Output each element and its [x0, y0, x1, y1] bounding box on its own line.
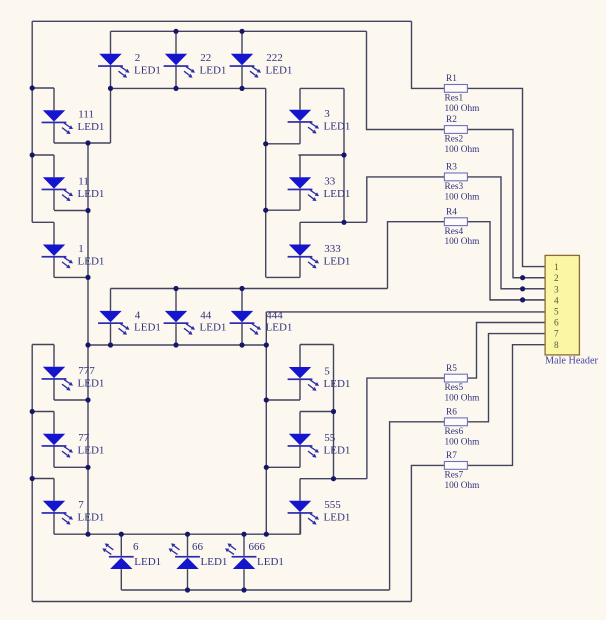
wire R3 lead link — [367, 177, 445, 222]
wire LED3 anode link — [300, 87, 344, 89]
svg-text:444: 444 — [266, 309, 283, 321]
wire segment G LED stubs x=110.5 — [110, 289, 112, 311]
wire R4 right lead to pin4 — [467, 222, 545, 300]
junction left bus / LED7 branch — [30, 476, 35, 481]
svg-text:Res5: Res5 — [445, 383, 464, 393]
wire segment D anode bus y=590 — [121, 589, 389, 591]
svg-text:R4: R4 — [446, 207, 457, 217]
wire segment G LED stubs x=176 — [175, 289, 177, 311]
wire segment A top bus (LED anodes, net R2) — [111, 30, 367, 32]
svg-text:55: 55 — [324, 432, 336, 444]
wire branch LED7 anode — [32, 478, 54, 480]
svg-text:LED1: LED1 — [134, 65, 161, 77]
junction inner bus / LED77 cathode — [85, 465, 90, 470]
junction inner bus / segG bottom bus — [85, 342, 90, 347]
wire LED33 anode jog — [299, 154, 345, 156]
wire LED5 cathode jog — [266, 399, 300, 401]
wire segment G LED cathode stub x=176 — [175, 322, 177, 345]
svg-text:4: 4 — [554, 296, 559, 306]
svg-text:R5: R5 — [446, 364, 457, 374]
junction segC anode bus / LED55 — [331, 409, 336, 414]
wire R2 riser from segment A bus — [367, 31, 445, 129]
junction right common bus / LED3 cathode — [263, 141, 268, 146]
junction segG top bus / LED44 — [173, 286, 178, 291]
junction inner bus / segD cathode bus — [85, 532, 90, 537]
svg-text:LED1: LED1 — [78, 378, 105, 390]
wire LED22 cathode stub — [175, 65, 177, 88]
junction segD anode bus / LED66 — [185, 587, 190, 592]
connector JP1 Male Header — [545, 255, 598, 366]
LED 44 (LED1) — [164, 309, 227, 335]
LED 33 (LED1) — [288, 176, 351, 202]
svg-text:R3: R3 — [446, 163, 457, 173]
svg-text:7: 7 — [554, 330, 559, 340]
wire LED2 anode stub — [110, 31, 112, 54]
wire R4 left lead descender — [388, 222, 445, 289]
junction segD cathode bus / LED666 — [241, 532, 246, 537]
wire header pin3 stub — [501, 288, 545, 290]
resistor R1 — [444, 74, 480, 114]
junction header pin4 wire — [520, 297, 525, 302]
wire left outer bus upper (segment F anode bus) — [31, 21, 33, 222]
svg-text:222: 222 — [266, 52, 283, 64]
wire R6 right lead to pin7 — [468, 334, 545, 422]
wire LED333 anode jog — [300, 221, 367, 223]
wire LED333 cathode jog — [266, 276, 300, 278]
junction segG bottom / LED4 — [108, 342, 113, 347]
wire R6 left lead descender — [390, 422, 445, 590]
wire LED555 anode stub — [299, 479, 301, 501]
wire segment F LED anode stub y=88 — [53, 88, 55, 110]
wire LED1 cathode jog — [54, 276, 88, 278]
wire segment C anode bus — [333, 345, 335, 479]
wire LED22 anode stub — [175, 31, 177, 54]
svg-text:3: 3 — [554, 285, 559, 295]
svg-text:Res7: Res7 — [445, 471, 464, 481]
resistor R7 — [444, 451, 480, 491]
wire segment A bottom bus (cathodes common) — [111, 87, 266, 89]
junction segB anode bus / LED333 and R3 — [341, 220, 346, 225]
LED 22 (LED1) — [164, 52, 227, 77]
svg-text:LED1: LED1 — [266, 322, 293, 334]
junction inner bus / LED1 cathode — [85, 275, 90, 280]
LED 3 (LED1) — [288, 108, 351, 134]
wire LED55 cathode stub — [299, 445, 301, 467]
junction header pin2 wire — [520, 275, 525, 280]
svg-text:33: 33 — [324, 176, 336, 188]
junction right common bus / LED33 cathode — [263, 208, 268, 213]
svg-text:LED1: LED1 — [324, 255, 351, 267]
svg-text:LED1: LED1 — [257, 556, 284, 568]
svg-text:1: 1 — [554, 263, 559, 273]
junction segA bottom / LED222 — [239, 86, 244, 91]
LED 444 (LED1) — [230, 309, 293, 335]
wire R3 right lead to pin3 — [467, 177, 545, 289]
svg-text:100 Ohm: 100 Ohm — [445, 394, 481, 404]
LED 11 (LED1) — [42, 176, 105, 202]
svg-text:100 Ohm: 100 Ohm — [445, 192, 481, 202]
svg-text:8: 8 — [554, 341, 559, 351]
svg-text:LED1: LED1 — [78, 255, 105, 267]
junction segA bus / LED22 — [173, 29, 178, 34]
svg-text:LED1: LED1 — [134, 322, 161, 334]
wire segment B anode bus — [343, 88, 345, 222]
resistor R3 — [444, 163, 480, 203]
wire segment E LED cathode stub y=411.5 — [53, 445, 55, 467]
wire LED777 cathode jog — [54, 399, 88, 401]
wire LED3 cathode jog — [266, 143, 300, 145]
wire LED33 cathode stub — [299, 189, 301, 211]
wire LED55 anode jog — [300, 411, 334, 413]
wire branch LED77 anode — [32, 411, 54, 413]
wire segment G top bus (net R4) — [111, 288, 388, 290]
svg-text:100 Ohm: 100 Ohm — [445, 104, 481, 114]
svg-text:100 Ohm: 100 Ohm — [445, 145, 481, 155]
wire branch LED111 anode — [32, 87, 54, 89]
svg-text:LED1: LED1 — [324, 512, 351, 524]
svg-text:100 Ohm: 100 Ohm — [445, 481, 481, 491]
wire R2 right lead to pin2 — [467, 130, 545, 278]
wire header pin4 stub — [490, 299, 545, 301]
wire R5 left lead link — [367, 378, 444, 479]
wire segment E LED cathode stub y=344.5 — [53, 378, 55, 400]
junction segD cathode bus / LED66 — [185, 532, 190, 537]
wire LED333 anode stub — [299, 222, 301, 244]
wire LED55 cathode jog — [266, 466, 300, 468]
svg-text:2: 2 — [135, 52, 141, 64]
svg-text:LED1: LED1 — [78, 121, 105, 133]
svg-text:66: 66 — [192, 541, 204, 553]
junction inner bus / LED111 cathode — [85, 140, 90, 145]
junction segD cathode bus / LED6 — [119, 532, 124, 537]
svg-text:6: 6 — [554, 319, 559, 329]
wire LED333 cathode stub — [299, 256, 301, 278]
wire segment E LED anode stub y=411.5 — [53, 412, 55, 434]
wire common to header pin5 — [266, 311, 545, 313]
svg-text:LED1: LED1 — [324, 378, 351, 390]
svg-text:44: 44 — [200, 309, 212, 321]
wire segment F LED cathode stub y=88 — [53, 122, 55, 143]
LED 555 (LED1) — [288, 499, 351, 524]
wire segment F LED cathode stub y=222.3 — [53, 256, 55, 277]
wire LED555 anode jog + R5 link — [300, 478, 367, 480]
wire outer-top net R1 (segment F anodes) — [32, 20, 411, 22]
wire segment D LED anode stub x=121.3 — [120, 569, 122, 590]
resistor R6 — [444, 408, 480, 448]
svg-text:5: 5 — [554, 308, 559, 318]
wire LED222 cathode stub — [241, 65, 243, 88]
junction common bus / LED55 cathode — [264, 465, 269, 470]
junction segA bus / LED222 — [239, 29, 244, 34]
wire LED3 cathode stub — [299, 121, 301, 144]
junction segD anode bus / LED666 — [241, 587, 246, 592]
svg-text:4: 4 — [135, 309, 141, 321]
svg-text:666: 666 — [249, 541, 266, 553]
wire segment D LED cathode stub x=187.5 — [187, 534, 189, 556]
junction common bus / segD bus — [264, 532, 269, 537]
resistor R2 — [444, 115, 480, 155]
svg-text:R2: R2 — [446, 115, 457, 125]
svg-text:LED1: LED1 — [78, 188, 105, 200]
LED 55 (LED1) — [288, 432, 351, 458]
svg-text:R7: R7 — [446, 451, 457, 461]
svg-text:333: 333 — [324, 243, 341, 255]
wire segment A to inner bus link — [110, 65, 112, 143]
junction segG bottom / common riser — [264, 342, 269, 347]
wire inner-left common bus — [87, 143, 89, 534]
wire LED77 cathode jog — [54, 466, 88, 468]
LED 111 (LED1) — [42, 109, 105, 135]
wire segment G LED cathode stub x=110.5 — [110, 322, 112, 345]
wire R1 right lead to pin1 — [467, 88, 545, 266]
LED 66 (LED1) — [169, 541, 228, 569]
wire left outer bus lower (segment E anode bus) — [31, 345, 33, 602]
svg-text:LED1: LED1 — [201, 556, 228, 568]
LED 77 (LED1) — [42, 432, 105, 458]
wire LED5 cathode stub — [299, 378, 301, 400]
wire LED55 anode stub — [299, 412, 301, 434]
junction header pin3 wire — [520, 286, 525, 291]
junction inner bus / LED11 cathode — [85, 208, 90, 213]
junction segG bottom / LED444 — [239, 342, 244, 347]
svg-text:LED1: LED1 — [78, 512, 105, 524]
svg-text:LED1: LED1 — [200, 322, 227, 334]
wire header pin2 stub — [513, 277, 545, 279]
wire LED5 anode stub — [299, 345, 301, 368]
svg-text:R6: R6 — [446, 408, 457, 418]
junction segB anode bus / LED33 — [341, 152, 346, 157]
wire R7 left lead descender — [411, 465, 444, 601]
svg-text:555: 555 — [324, 499, 341, 511]
svg-text:11: 11 — [78, 176, 89, 188]
svg-text:LED1: LED1 — [78, 445, 105, 457]
junction inner bus / LED777 cathode — [85, 397, 90, 402]
wire segment D LED anode stub x=244 — [243, 569, 245, 590]
LED 5 (LED1) — [288, 365, 351, 391]
wire segment C top corner — [300, 344, 334, 346]
LED 777 (LED1) — [42, 365, 105, 391]
resistor R5 — [444, 364, 480, 404]
svg-text:Res4: Res4 — [445, 227, 464, 237]
wire LED3 anode stub — [299, 88, 301, 109]
wire LED33 anode stub — [299, 155, 301, 177]
svg-text:LED1: LED1 — [200, 65, 227, 77]
svg-text:77: 77 — [78, 432, 90, 444]
svg-text:777: 777 — [78, 365, 95, 377]
wire segment E LED anode stub y=478.5 — [53, 479, 55, 501]
svg-text:Res3: Res3 — [445, 182, 464, 192]
svg-text:Res6: Res6 — [445, 427, 464, 437]
LED 333 (LED1) — [288, 243, 351, 269]
svg-text:LED1: LED1 — [324, 121, 351, 133]
wire segment D LED cathode stub x=244 — [243, 534, 245, 556]
svg-text:111: 111 — [78, 109, 94, 121]
svg-text:LED1: LED1 — [134, 556, 161, 568]
wire segment D cathode bus y=535 — [54, 533, 301, 535]
LED 7 (LED1) — [42, 499, 105, 524]
LED 6 (LED1) — [102, 541, 161, 569]
junction left bus / LED111 branch — [30, 85, 35, 90]
wire R5 right lead to pin6 — [468, 323, 545, 379]
LED 2 (LED1) — [98, 52, 161, 77]
svg-text:7: 7 — [78, 499, 84, 511]
LED 666 (LED1) — [225, 541, 284, 569]
junction segA bottom / LED2 — [108, 86, 113, 91]
wire segment G LED cathode stub x=242 — [241, 322, 243, 345]
LED 4 (LED1) — [98, 309, 161, 335]
junction segA bottom / LED22 — [173, 86, 178, 91]
LED 222 (LED1) — [230, 52, 293, 77]
svg-text:Res1: Res1 — [445, 94, 464, 104]
wire branch LED777 anode — [32, 344, 54, 346]
wire LED555 cathode stub — [299, 512, 301, 534]
wire LED111 cathode jog — [54, 142, 111, 144]
svg-text:LED1: LED1 — [324, 445, 351, 457]
wire segment F LED anode stub y=155 — [53, 155, 55, 177]
svg-text:100 Ohm: 100 Ohm — [445, 437, 481, 447]
wire R7 right lead to pin8 — [468, 345, 545, 466]
junction left bus / LED11 branch — [30, 152, 35, 157]
svg-text:100 Ohm: 100 Ohm — [445, 237, 481, 247]
wire segment D LED cathode stub x=121.3 — [120, 534, 122, 556]
junction segG top bus / LED444 — [239, 286, 244, 291]
junction left bus / LED77 branch — [30, 409, 35, 414]
wire common bus right column upper — [265, 88, 267, 277]
junction segC anode bus / LED555 and R5 — [331, 476, 336, 481]
svg-text:3: 3 — [324, 108, 330, 120]
svg-text:LED1: LED1 — [266, 65, 293, 77]
svg-text:2: 2 — [554, 274, 559, 284]
svg-text:Male Header: Male Header — [545, 356, 598, 367]
wire segment G LED stubs x=242 — [241, 289, 243, 311]
wire segment E LED anode stub y=344.5 — [53, 345, 55, 367]
wire segment F LED cathode stub y=155 — [53, 189, 55, 210]
wire segment F LED anode stub y=222.3 — [53, 222, 55, 244]
junction common bus / LED5 cathode — [264, 397, 269, 402]
svg-text:22: 22 — [200, 52, 211, 64]
svg-text:R1: R1 — [446, 74, 457, 84]
wire LED222 anode stub — [241, 31, 243, 54]
wire segment E LED cathode stub y=478.5 — [53, 512, 55, 534]
wire LED11 cathode jog — [54, 210, 88, 212]
wire branch LED11 anode — [32, 154, 54, 156]
svg-text:Res2: Res2 — [445, 135, 464, 145]
resistor R4 — [444, 207, 480, 247]
wire LED555 cathode link — [300, 512, 302, 534]
wire segment G bottom bus (common) — [88, 344, 266, 346]
LED 1 (LED1) — [42, 243, 105, 269]
junction segG bottom / LED44 — [173, 342, 178, 347]
svg-text:1: 1 — [78, 243, 84, 255]
wire common bus right column lower — [265, 312, 267, 534]
svg-text:6: 6 — [133, 541, 139, 553]
wire segment D LED anode stub x=187.5 — [187, 569, 189, 590]
wire branch LED1 anode — [32, 221, 54, 223]
wire outer bottom (segment E anodes to R7) — [32, 601, 411, 603]
svg-text:5: 5 — [324, 365, 330, 377]
wire LED33 cathode jog — [266, 209, 300, 211]
svg-text:LED1: LED1 — [324, 188, 351, 200]
wire R1 left lead riser — [412, 21, 445, 88]
